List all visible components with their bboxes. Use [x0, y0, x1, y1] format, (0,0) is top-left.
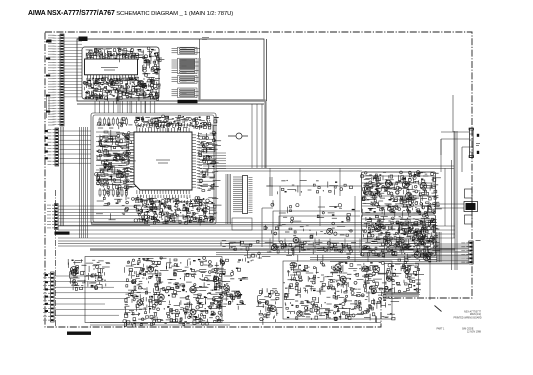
ribbon bus (gray) vertical — [198, 58, 200, 101]
ribbon bus (gray) horizontal — [200, 99, 266, 102]
CN604 labels — [45, 274, 48, 276]
connector CN503 — [461, 241, 473, 264]
CN501 pads — [477, 134, 479, 137]
sub-box below CN401 — [232, 218, 252, 230]
footnote text right — [437, 311, 482, 334]
board link connector CN502c — [465, 215, 473, 224]
footnote tick — [435, 306, 442, 312]
connector CN601 (left edge, to front board) — [53, 34, 65, 126]
wires left pins of IC401 — [108, 133, 130, 135]
net label column text — [47, 95, 50, 118]
section box (input selector) — [77, 39, 264, 104]
corner label top-left — [47, 40, 52, 43]
resistor bank R413-R424 (bottom) — [99, 188, 127, 197]
wire: top section right edge — [266, 39, 268, 101]
bus lines (system bus) — [58, 225, 455, 227]
resistor bank R401-R412 (top) — [99, 117, 127, 126]
component cluster (mid section) — [220, 240, 270, 266]
IC401 caption — [156, 160, 170, 163]
line amp loop boxes — [262, 177, 360, 247]
CN603 ref label — [55, 230, 57, 232]
wires to CN503 — [430, 243, 468, 245]
component cluster (dolby L) — [123, 257, 228, 327]
component cluster power amp right col — [396, 215, 437, 263]
power amp internal rails — [362, 176, 435, 249]
component cluster right of IC401 — [199, 131, 221, 191]
svg-text:S/M CODE: S/M CODE — [462, 329, 474, 331]
wire: audio line R — [216, 170, 362, 172]
component cluster power amp B — [361, 214, 441, 260]
wires CN603 right — [59, 205, 150, 207]
connector CN602 — [48, 128, 59, 166]
IC1 ref label — [79, 37, 88, 42]
op-amp IC1 (sound processor) — [85, 53, 138, 80]
component cluster (line amp) — [264, 200, 355, 262]
section box (power amp A) — [362, 172, 436, 213]
net break label on top line — [202, 38, 209, 40]
section box (power amp B) — [362, 215, 436, 256]
inner box around IC1 — [82, 47, 159, 99]
wires to speaker connector — [441, 95, 469, 270]
connector CN501 (speaker) — [469, 128, 474, 158]
wire bundle (bus to CN) — [225, 174, 227, 224]
power amp bottom rails — [310, 258, 437, 262]
IC1 caption — [101, 68, 118, 71]
board name label — [67, 332, 91, 335]
connector CN603 — [47, 204, 58, 230]
component cluster (preamp small) — [68, 259, 110, 290]
CN401 pin name dashes — [249, 177, 253, 179]
wires amp to CN503 — [437, 245, 468, 247]
component cluster (buffer left) — [256, 288, 282, 325]
svg-text:AIWA NSX-A777/S777/A767 SCHEMA: AIWA NSX-A777/S777/A767 SCHEMATIC DIAGRA… — [28, 10, 233, 17]
wire bundle (left riser) — [79, 127, 81, 238]
connector CN601 pin labels — [48, 34, 55, 36]
svg-text:12 NOV 1998: 12 NOV 1998 — [467, 332, 482, 334]
CN602 labels — [45, 130, 48, 132]
wire bundle amp right edge — [436, 232, 438, 262]
wire: pill riser to top — [199, 39, 201, 58]
IC401 pin labels — [126, 124, 200, 198]
section box (tone control) — [283, 261, 392, 319]
mute box gray bottom — [383, 295, 419, 297]
label SYSTEM CONTROL — [55, 232, 70, 235]
bus lines (upper extra) — [91, 222, 436, 224]
mute box bottom rails — [372, 293, 420, 295]
wire: signal line — [266, 185, 362, 187]
connector CN401 comb wires — [233, 176, 243, 178]
wire-link pill stack W601-W617 — [180, 48, 196, 97]
bus vertical drops — [269, 239, 271, 253]
component cluster left of IC401 — [95, 132, 136, 191]
component cluster (tone control) — [284, 262, 400, 323]
pill inner labels — [182, 48, 187, 50]
component cluster above IC401 — [135, 115, 219, 132]
ribbon bus (gray) right vertical — [264, 101, 266, 169]
CN501 label — [476, 144, 480, 146]
section box (dolby section) — [85, 257, 222, 323]
component cluster around IC1 (bottom) — [83, 77, 160, 104]
wire risers top-mid to audio line — [251, 104, 253, 168]
bus lines (lower) — [58, 240, 430, 242]
component cluster below IC401 — [134, 197, 222, 225]
small parts on signal line — [278, 180, 353, 195]
wires right pins of IC401 — [200, 134, 215, 136]
thick gray wire amp out — [415, 263, 468, 265]
board link connector CN502b — [465, 189, 473, 198]
connector CN401 body — [243, 176, 248, 214]
component cluster power amp A — [360, 171, 441, 218]
wires CN604 right — [55, 275, 100, 277]
component cluster right of IC1 — [142, 59, 164, 76]
wire: audio line L — [216, 166, 454, 169]
wires to CN502 — [435, 204, 464, 208]
bus lines (amp feed) — [216, 252, 437, 254]
line amp part row — [280, 241, 356, 256]
svg-text:NSX-A777/S777: NSX-A777/S777 — [464, 311, 482, 314]
section box (system control, double border) — [91, 113, 216, 224]
wire bundle risers between sections — [94, 101, 96, 113]
wire: lower section bottom — [90, 323, 381, 326]
pill stack group outlines — [178, 47, 198, 97]
CN503 label — [476, 240, 481, 242]
svg-text:PRINTED WIRING BOARD: PRINTED WIRING BOARD — [454, 316, 482, 319]
section box (mute) — [385, 264, 419, 294]
wires MCU to bundle — [203, 152, 226, 154]
CN601 black labels — [46, 41, 50, 43]
crystal X401 — [228, 133, 248, 139]
MCU box background texture — [96, 116, 221, 225]
svg-text:MAIN (1/2): MAIN (1/2) — [470, 313, 481, 316]
component cluster (aux small) — [212, 268, 248, 310]
IC401 pin name fuzz — [124, 123, 202, 203]
wire risers mid page — [119, 101, 121, 113]
board link connector CN502 — [464, 202, 478, 212]
pill stack wire stubs — [172, 48, 178, 50]
board outline (dash-dot) — [45, 32, 472, 327]
microcontroller IC401 — [130, 128, 196, 194]
wires CN602 to section — [60, 130, 92, 132]
inner partition dash-dot line — [55, 190, 57, 327]
component cluster around IC1 (top row) — [86, 47, 162, 62]
wire risers from CN601 down — [60, 127, 62, 226]
thick gray bus (analog) — [90, 248, 455, 250]
connector CN604 — [43, 272, 54, 322]
svg-text:PART 1: PART 1 — [437, 328, 446, 331]
pill stack bottom label — [178, 100, 198, 103]
wire bundle connector to IC1 — [64, 37, 82, 39]
resistor ladder array — [96, 131, 120, 133]
component cluster (mute) — [385, 264, 424, 294]
